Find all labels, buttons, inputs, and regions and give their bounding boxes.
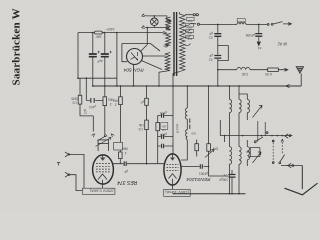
svg-text:0M1: 0M1 <box>108 98 114 102</box>
col2 x157.7 <box>157 116 159 123</box>
potentiometer box <box>98 140 109 144</box>
T mark <box>57 163 60 166</box>
mid line y135.6 <box>220 135 291 137</box>
col5 x208.6 <box>208 86 210 144</box>
input terminal 1 <box>65 152 84 188</box>
svg-text:240: 240 <box>187 25 192 29</box>
svg-text:µF005: µF005 <box>245 33 254 37</box>
svg-text:0,50: 0,50 <box>242 72 248 76</box>
B+ wire y24.5 <box>197 23 199 25</box>
svg-text:RES 374: RES 374 <box>117 179 137 185</box>
input terminal 2 <box>65 172 82 190</box>
svg-text:1:0: 1:0 <box>162 128 166 132</box>
svg-text:1:5: 1:5 <box>138 127 143 131</box>
feeder verticals <box>258 121 265 142</box>
grids dashed <box>96 164 110 172</box>
svg-text:2: 2 <box>115 103 117 107</box>
tube2 RENS1204 <box>164 154 181 185</box>
transformer core <box>174 12 177 76</box>
node dot L1 <box>77 77 79 79</box>
earth arrow big <box>301 166 303 190</box>
heater taps to tube <box>141 56 165 70</box>
dashed link 1 <box>272 140 274 163</box>
svg-text:2: 2 <box>110 102 112 106</box>
resistor R5 x148 <box>146 86 148 98</box>
col3 x173 transformer sec to tube2 <box>172 86 174 154</box>
lamp stems <box>153 16 155 28</box>
switch S1 <box>267 24 269 26</box>
resistor R3 h <box>250 69 268 71</box>
main bus y86 <box>93 85 301 87</box>
pot arrow mid <box>205 149 214 157</box>
coupling caps col2-col3 <box>158 115 173 117</box>
sec tap labels <box>187 17 195 20</box>
secondary bottom drop <box>173 72 180 86</box>
switch contact arrows lamp <box>142 14 147 17</box>
svg-text:Dr2: Dr2 <box>239 21 244 25</box>
svg-text:e1: e1 <box>258 46 262 50</box>
label box tube1 <box>82 188 115 194</box>
pot feed wire <box>104 106 106 134</box>
lamp bottom wire <box>146 26 169 29</box>
wire drop x117 <box>116 33 118 86</box>
svg-text:4: 4 <box>125 151 127 155</box>
svg-text:2AF: 2AF <box>96 34 102 38</box>
switch S2 blade <box>254 141 256 143</box>
RF coil A <box>228 86 230 99</box>
switch blade tube1 <box>104 135 106 137</box>
svg-text:01: 01 <box>209 36 213 40</box>
svg-text:7s: 7s <box>223 173 227 177</box>
svg-text:100µF: 100µF <box>219 178 228 182</box>
resistor R8 <box>196 140 198 157</box>
svg-text:µF001: µF001 <box>199 172 208 176</box>
node dot B2 <box>258 24 260 26</box>
wire mains A <box>78 32 162 34</box>
capacitor C4 column <box>217 25 219 33</box>
svg-text:µF: µF <box>124 170 128 174</box>
svg-text:240V~: 240V~ <box>105 27 114 31</box>
bus dots <box>92 85 94 87</box>
svg-text:100: 100 <box>83 108 88 114</box>
sec tap 4V top <box>185 14 193 16</box>
svg-text:01: 01 <box>209 58 213 62</box>
rectifier RGN504 <box>127 49 143 65</box>
wire to switch <box>246 23 268 25</box>
paper noise <box>0 0 1 1</box>
node dot A1 <box>92 32 94 34</box>
capacitor C1 4uF <box>89 54 97 57</box>
tube2 right wire <box>181 166 209 168</box>
component box S <box>250 148 260 157</box>
wire drop x93 <box>92 33 94 54</box>
transformer secondary <box>180 12 186 72</box>
svg-text:µ?: µ? <box>140 100 144 104</box>
svg-text:220: 220 <box>187 31 192 35</box>
fuse Si2A <box>94 31 102 34</box>
node dot A2 <box>103 32 105 34</box>
ground triangle <box>296 67 303 74</box>
bus riser to ground <box>300 74 302 87</box>
svg-text:(250V 0,60A): (250V 0,60A) <box>89 189 113 194</box>
RGN anode feed wire <box>122 44 160 52</box>
capacitor C5 <box>214 56 221 59</box>
plus C2 <box>110 51 112 53</box>
transformer primary block1 <box>166 17 171 30</box>
IF core marks <box>189 119 191 129</box>
resistor R2 <box>104 86 106 97</box>
RF coil B <box>238 86 240 99</box>
tube1 RES374 <box>93 155 114 184</box>
choke horizontal 2 <box>237 68 250 70</box>
svg-text:4µF: 4µF <box>97 59 103 64</box>
svg-text:M 42: M 42 <box>277 42 287 47</box>
wire drop x86 <box>85 78 87 100</box>
resistor R1 <box>79 78 81 95</box>
svg-text:RENS1204: RENS1204 <box>186 176 210 182</box>
anode wire tube1 <box>113 163 164 165</box>
RGN anode line <box>131 52 139 61</box>
RGN cathode drop <box>133 64 135 86</box>
switch S3 blade <box>280 155 285 162</box>
svg-text:0M5: 0M5 <box>71 97 77 101</box>
dashed link 2 arrow <box>281 139 283 154</box>
wire line1 y78 <box>78 77 117 79</box>
filament <box>98 174 107 180</box>
terminal out2 <box>288 163 291 167</box>
svg-text:10k: 10k <box>162 125 167 129</box>
transformer primary block2 <box>166 33 171 45</box>
capacitor C2 4uF <box>104 33 106 54</box>
svg-text:1:0: 1:0 <box>72 101 77 105</box>
node dot A3 <box>116 32 118 34</box>
node dot L2 <box>85 77 87 79</box>
pilot lamp top wire <box>146 16 171 23</box>
sec tap hooks <box>185 24 191 26</box>
svg-text:U 50: U 50 <box>265 72 272 76</box>
cap C9 <box>229 175 236 178</box>
svg-text:0M4: 0M4 <box>122 147 128 151</box>
resistor R4 <box>120 86 122 97</box>
RF coil C <box>247 99 249 112</box>
svg-text:110: 110 <box>187 37 192 41</box>
heater bottom to bus <box>159 71 170 87</box>
RGN box loop <box>122 44 127 62</box>
plus C1 <box>98 51 100 53</box>
wire drop x78 <box>77 33 79 79</box>
bottom bus y193.7 <box>173 193 246 195</box>
pot ends to tube <box>98 143 109 151</box>
terminal out1 <box>285 134 288 138</box>
svg-text:µF: µF <box>209 54 213 58</box>
speaker wire y69.7 <box>218 69 237 71</box>
resistor R6 right of tube1 <box>114 142 123 150</box>
svg-text:0,7mA: 0,7mA <box>175 123 180 133</box>
svg-text:Saarbrücken W: Saarbrücken W <box>11 8 23 85</box>
node dot B1 <box>217 24 219 26</box>
trimmer arrows <box>253 106 263 118</box>
svg-text:100: 100 <box>191 132 196 136</box>
primary tap arrows <box>162 31 167 34</box>
out wire y165.5 <box>281 165 302 167</box>
arrow right B+ <box>283 23 291 26</box>
label box tube2 <box>164 189 191 196</box>
IF coil col x187.5 <box>186 86 188 108</box>
RGN top-right wire <box>141 28 148 52</box>
capacitor C6 with arrow <box>258 25 260 34</box>
anode triangle <box>100 158 105 161</box>
capacitor C3 <box>86 99 105 101</box>
arrow right speaker <box>278 68 288 71</box>
svg-text:13k: 13k <box>138 123 144 127</box>
bus arrow left-point <box>286 84 291 87</box>
svg-text:µF: µF <box>209 32 213 36</box>
choke Dr horizontal <box>237 23 246 25</box>
lamp La <box>151 18 159 26</box>
heater winding RGN <box>165 53 170 71</box>
svg-text:0M: 0M <box>113 99 118 103</box>
svg-text:4V2: 4V2 <box>188 19 193 23</box>
